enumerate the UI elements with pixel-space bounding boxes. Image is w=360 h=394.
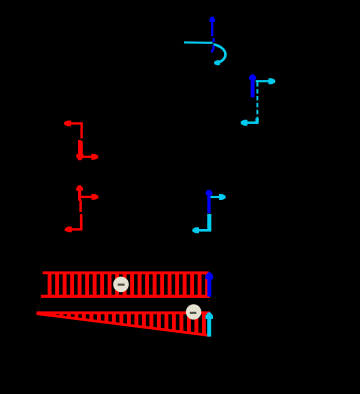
velocity vector v3: red right arrow (group R1): [82, 154, 99, 160]
minus sign of Q2: [190, 312, 197, 314]
force vector F3: thick red down arrow (group R1): [76, 140, 83, 160]
plate P2: sloped bottom edge (red): [37, 314, 211, 336]
velocity vector v2: cyan right arrow (group B): [256, 78, 276, 84]
charge ball Q2 (negative): [186, 304, 201, 319]
velocity vector v6: cyan up arrow at plate P2 right end: [205, 312, 213, 336]
wire: red vertical path segment upper (group R1): [80, 122, 82, 138]
plate P1: hatch lines: [50, 272, 208, 298]
plate P2: top edge (red): [37, 311, 211, 314]
node A: particle velocity line (cyan, horizontal): [184, 41, 213, 43]
wire: red vertical path segment upper (group R2): [79, 201, 82, 212]
wire: thick cyan vertical path (group C): [207, 214, 211, 230]
wire: red vertical path segment lower (group R2): [80, 214, 83, 229]
force vector F6: dark blue up arrow at plate P1 right end: [205, 272, 213, 297]
force vector F5: dark blue up arrow (group C): [206, 190, 213, 213]
wire: dashed cyan displacement path down (group B): [256, 82, 258, 120]
plate P1: bottom edge (red): [41, 295, 210, 298]
plate P1: top edge (red): [43, 271, 209, 274]
displacement arrow R2a: red elbow to left arrowhead (group R2): [65, 227, 83, 233]
wire: curved trajectory arc with left arrowhead (cyan): [213, 44, 225, 65]
displacement arrow C1: cyan elbow to left arrowhead (group C): [192, 227, 211, 233]
force vector F4: red up arrow (group R2): [76, 185, 83, 201]
charge ball Q1 (negative): [113, 277, 129, 293]
displacement arrow R1a: red left arrow at top (group R1): [64, 121, 82, 127]
wire: red vertical path segment lower (group R1): [80, 141, 82, 157]
plate P2: hatch lines: [54, 312, 204, 336]
displacement arrow: cyan elbow to left arrowhead (group B): [241, 118, 259, 126]
minus sign of Q1: [118, 284, 125, 286]
velocity vector v5: cyan right arrow (group C): [211, 194, 226, 200]
force vector F2: dark blue up arrow (group B): [249, 74, 256, 97]
force vector F1: dark blue up arrow (top, partly dashed): [210, 17, 215, 53]
velocity vector v4: red right arrow (group R2): [81, 194, 98, 200]
